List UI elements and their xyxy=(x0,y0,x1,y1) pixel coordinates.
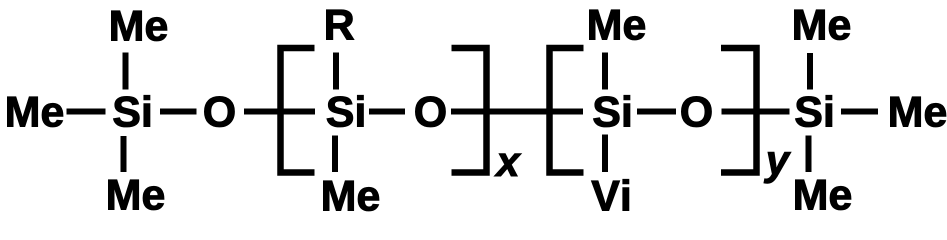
wire Si1-O1 bond xyxy=(160,109,197,115)
subscript x xyxy=(495,154,522,176)
wire Si1 top bond xyxy=(123,53,129,90)
bracket right ] of y repeat unit xyxy=(721,48,757,173)
atom label O1 xyxy=(205,96,235,126)
atom label Si4 xyxy=(796,95,832,127)
bracket right ] of x repeat unit xyxy=(452,48,487,173)
wire Si2 top bond xyxy=(333,53,339,90)
atom label Me (left terminal) xyxy=(8,97,63,127)
wire Si4 bottom bond xyxy=(806,136,812,173)
wire Si4 top bond xyxy=(807,53,813,90)
atom label Me above Si4 xyxy=(795,10,850,40)
wire Si3 top bond xyxy=(602,53,608,90)
wire O2 to Si3 bond through brackets xyxy=(451,109,583,115)
substituent label R above Si2 xyxy=(327,10,354,40)
wire O1 to Si2 bond through bracket xyxy=(244,109,315,115)
atom label Me (right terminal) xyxy=(891,97,946,127)
atom label Si1 xyxy=(114,95,150,127)
atom label Me above Si1 xyxy=(112,11,167,41)
wire Si2 bottom bond xyxy=(332,136,338,173)
wire Si4-Me bond xyxy=(841,109,878,115)
wire Si1 bottom bond xyxy=(121,136,127,172)
atom label Me below Si2 xyxy=(324,181,379,211)
atom label O2 xyxy=(416,96,446,126)
wire Si3 bottom bond xyxy=(602,135,608,173)
atom label Si2 xyxy=(327,95,363,127)
wire Si2-O2 bond xyxy=(369,109,405,115)
wire Me-Si1 bond xyxy=(67,109,106,115)
atom label Me above Si3 xyxy=(590,10,645,40)
atom label Si3 xyxy=(594,95,630,127)
vinyl label Vi below Si3 xyxy=(592,179,629,210)
atom label O3 xyxy=(682,96,712,126)
bracket left [ of y repeat unit xyxy=(550,48,584,173)
bracket left [ of x repeat unit xyxy=(281,48,315,173)
subscript y xyxy=(764,152,791,183)
wire Si3-O3 bond xyxy=(637,109,676,115)
atom label Me below Si4 xyxy=(796,180,851,210)
atom label Me below Si1 xyxy=(109,180,164,210)
wire O3 to Si4 bond through bracket xyxy=(722,109,790,115)
